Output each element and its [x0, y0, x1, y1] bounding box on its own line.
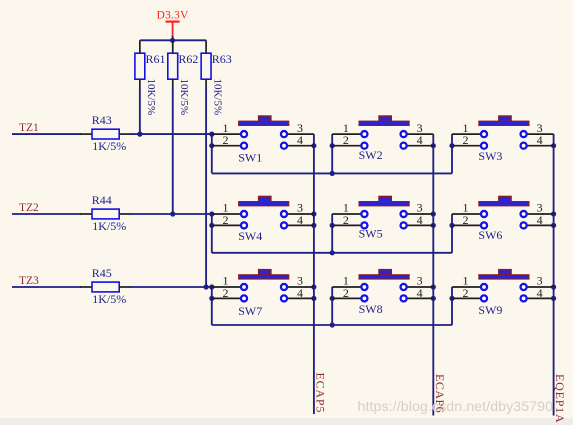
- wire R61 to TZ1: [139, 87, 141, 134]
- svg-text:10K/5%: 10K/5%: [211, 79, 223, 116]
- pin numbers SW6: [463, 201, 543, 227]
- junction TZ1 feed pin2: [209, 143, 214, 148]
- junction TZ1 feed2 pin2: [330, 143, 335, 148]
- wire TZ2 left segment: [12, 213, 81, 215]
- wire power rail: [140, 39, 206, 41]
- svg-text:10K/5%: 10K/5%: [178, 79, 190, 116]
- svg-text:1K/5%: 1K/5%: [92, 219, 126, 233]
- svg-text:https://blog.csdn.net/dby35790: https://blog.csdn.net/dby35790: [358, 398, 554, 414]
- resistor R44: [80, 209, 132, 219]
- wire R63 to TZ3: [205, 87, 207, 287]
- junction TZ2 feed pin1: [209, 211, 214, 216]
- wire TZ3 left segment: [12, 286, 81, 288]
- junction TZ2 feed3 pin2: [449, 223, 454, 228]
- wire TZ1 left segment: [12, 133, 81, 135]
- svg-text:4: 4: [297, 213, 303, 227]
- junction TZ3 feed2 bus: [330, 322, 335, 327]
- svg-text:TZ3: TZ3: [19, 275, 39, 287]
- wire TZ1 feed column2 vertical: [331, 134, 333, 173]
- svg-text:2: 2: [463, 213, 469, 227]
- pin numbers SW3: [463, 121, 543, 147]
- switch SW4: [212, 196, 314, 228]
- svg-text:4: 4: [417, 133, 423, 147]
- junction EQEP1A SW pin3 row3: [551, 284, 556, 289]
- wire ECAP6 column: [432, 134, 434, 415]
- svg-text:EQEP1A: EQEP1A: [553, 374, 567, 423]
- svg-text:R62: R62: [178, 52, 198, 66]
- wire TZ2 feed column2 vertical: [331, 214, 333, 253]
- junction TZ1 feed3 pin2: [449, 143, 454, 148]
- switch SW8: [332, 270, 433, 302]
- svg-text:1K/5%: 1K/5%: [92, 139, 126, 153]
- junction ECAP5 SW pin3 row2: [311, 211, 316, 216]
- svg-text:SW2: SW2: [359, 148, 383, 162]
- svg-text:R45: R45: [92, 266, 112, 280]
- resistor R43: [80, 129, 132, 139]
- svg-text:SW8: SW8: [359, 302, 383, 316]
- bottom strip: [0, 418, 573, 425]
- svg-text:4: 4: [417, 286, 423, 300]
- junction TZ1 feed pin1: [209, 132, 214, 137]
- svg-text:R63: R63: [212, 52, 232, 66]
- switch SW3: [452, 116, 554, 149]
- junction EQEP1A SW pin4 row1: [551, 143, 556, 148]
- svg-text:2: 2: [223, 286, 229, 300]
- resistor R61: [135, 40, 145, 87]
- junction TZ2 feed2 bus: [330, 250, 335, 255]
- power symbol D3.3V: [166, 22, 180, 41]
- junction ECAP6 SW pin4 row3: [431, 296, 436, 301]
- junction TZ3 feed pin1: [209, 284, 214, 289]
- svg-text:2: 2: [223, 213, 229, 227]
- svg-text:SW3: SW3: [478, 149, 502, 163]
- svg-text:TZ1: TZ1: [19, 122, 39, 134]
- junction R62/TZ2: [170, 211, 175, 216]
- pin numbers SW1: [223, 121, 304, 147]
- pin numbers SW5: [343, 201, 423, 227]
- svg-text:10K/5%: 10K/5%: [145, 79, 157, 116]
- junction TZ2 feed pin2: [209, 223, 214, 228]
- svg-text:TZ2: TZ2: [19, 202, 39, 214]
- junction TZ3 feed3 pin2: [449, 296, 454, 301]
- svg-text:2: 2: [343, 213, 349, 227]
- svg-text:4: 4: [537, 133, 543, 147]
- svg-text:4: 4: [537, 213, 543, 227]
- svg-text:R44: R44: [92, 193, 112, 207]
- switch SW7: [212, 270, 314, 302]
- svg-text:SW9: SW9: [478, 303, 502, 317]
- svg-text:2: 2: [343, 286, 349, 300]
- wire TZ1 to switch row: [131, 133, 212, 135]
- junction ECAP5 SW pin4 row2: [311, 223, 316, 228]
- junction ECAP6 SW pin3 row2: [431, 211, 436, 216]
- wire TZ3 bus: [212, 324, 452, 326]
- svg-text:R43: R43: [92, 113, 112, 127]
- wire TZ2 feed column3 vertical: [451, 214, 453, 253]
- pin numbers SW7: [223, 274, 304, 300]
- pin numbers SW2: [343, 121, 423, 147]
- svg-text:1K/5%: 1K/5%: [92, 292, 126, 306]
- svg-text:2: 2: [463, 286, 469, 300]
- svg-text:SW1: SW1: [238, 150, 262, 164]
- wire TZ2 feed column1 vertical: [211, 214, 213, 253]
- junction TZ3 feed pin2: [209, 296, 214, 301]
- svg-text:R61: R61: [145, 52, 165, 66]
- wire ECAP5 column: [313, 134, 315, 414]
- svg-text:ECAP5: ECAP5: [314, 373, 328, 414]
- svg-text:4: 4: [297, 286, 303, 300]
- pin numbers SW9: [463, 274, 543, 300]
- junction EQEP1A SW pin4 row2: [551, 223, 556, 228]
- resistor R63: [201, 40, 211, 87]
- resistor R62: [168, 40, 178, 87]
- wire TZ2 to switch row: [131, 213, 212, 215]
- svg-text:SW5: SW5: [359, 227, 383, 241]
- svg-text:D3.3V: D3.3V: [157, 10, 189, 22]
- resistor R45: [80, 282, 132, 292]
- junction TZ2 feed2 pin2: [330, 223, 335, 228]
- svg-text:SW6: SW6: [478, 228, 502, 242]
- junction ECAP5 SW pin4 row1: [311, 143, 316, 148]
- switch SW6: [452, 196, 554, 228]
- svg-text:2: 2: [463, 133, 469, 147]
- junction TZ1 feed2 bus: [330, 171, 335, 176]
- junction power rail: [170, 38, 175, 43]
- svg-text:4: 4: [417, 213, 423, 227]
- junction ECAP6 SW pin3 row3: [431, 284, 436, 289]
- junction R63/TZ3: [204, 284, 209, 289]
- junction ECAP5 SW pin4 row3: [311, 296, 316, 301]
- junction ECAP6 SW pin4 row2: [431, 223, 436, 228]
- wire TZ3 feed column1 vertical: [211, 287, 213, 325]
- svg-text:4: 4: [537, 286, 543, 300]
- wire TZ3 feed column3 vertical: [451, 287, 453, 325]
- svg-text:4: 4: [297, 133, 303, 147]
- wire R62 to TZ2: [172, 87, 174, 214]
- wire TZ1 feed column3 vertical: [451, 134, 453, 173]
- junction TZ3 feed2 pin2: [330, 296, 335, 301]
- svg-text:SW4: SW4: [238, 229, 262, 243]
- junction EQEP1A SW pin3 row2: [551, 211, 556, 216]
- pin numbers SW8: [343, 274, 423, 300]
- wire EQEP1A column: [553, 134, 555, 415]
- wire TZ1 feed column1 vertical: [211, 134, 213, 173]
- junction ECAP5 SW pin3 row3: [311, 284, 316, 289]
- switch SW5: [332, 196, 433, 228]
- switch SW2: [332, 116, 433, 149]
- svg-text:2: 2: [223, 133, 229, 147]
- wire TZ3 feed column2 vertical: [331, 287, 333, 325]
- wire TZ1 bus: [212, 172, 452, 174]
- wire TZ3 to switch row: [131, 286, 212, 288]
- junction ECAP6 SW pin4 row1: [431, 143, 436, 148]
- junction EQEP1A SW pin4 row3: [551, 296, 556, 301]
- svg-text:SW7: SW7: [238, 304, 262, 318]
- wire TZ2 bus: [212, 252, 452, 254]
- switch SW1: [212, 116, 314, 149]
- pin numbers SW4: [223, 201, 304, 227]
- junction R61/TZ1: [137, 132, 142, 137]
- switch SW9: [452, 270, 554, 302]
- svg-text:2: 2: [343, 133, 349, 147]
